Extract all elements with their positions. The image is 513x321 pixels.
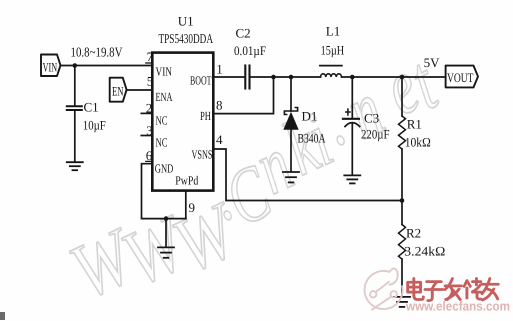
svg-text:4: 4 (216, 132, 223, 147)
svg-text:GND: GND (155, 162, 174, 176)
corner mark (0, 312, 5, 320)
svg-text:C2: C2 (236, 26, 251, 41)
resistor R1 10k (399, 77, 431, 201)
svg-text:ENA: ENA (156, 90, 173, 104)
node D1 junction (289, 75, 294, 80)
wire VIN to pin7 (61, 65, 153, 67)
node VIN junction (73, 63, 78, 68)
node ground junction (164, 216, 169, 221)
svg-text:10kΩ: 10kΩ (405, 135, 431, 150)
svg-text:5V: 5V (424, 55, 441, 70)
svg-text:10.8~19.8V: 10.8~19.8V (71, 45, 123, 60)
svg-text:NC: NC (156, 136, 168, 150)
svg-text:7: 7 (147, 49, 154, 64)
pin 6 stub (146, 160, 153, 162)
port VOUT (446, 66, 478, 88)
node PH junction (271, 75, 276, 80)
wire junction to ground (165, 219, 167, 247)
inductor L1 15uH (320, 24, 344, 78)
node C3 junction (350, 75, 355, 80)
svg-text:VSNS: VSNS (192, 148, 213, 162)
capacitor C3 220uF (343, 77, 390, 175)
svg-text:VIN: VIN (156, 65, 173, 79)
svg-text:15µH: 15µH (321, 43, 345, 58)
svg-text:220µF: 220µF (361, 127, 390, 142)
svg-text:8: 8 (216, 98, 223, 113)
svg-text:PwPd: PwPd (175, 174, 199, 188)
diode D1 B340A (283, 77, 326, 172)
pin 7 stub (146, 62, 153, 64)
svg-text:3.24kΩ: 3.24kΩ (404, 244, 445, 259)
svg-text:D1: D1 (302, 109, 318, 124)
svg-text:NC: NC (156, 114, 168, 128)
capacitor C2 (234, 26, 266, 89)
svg-text:www.elecfans.com: www.elecfans.com (405, 299, 510, 314)
svg-text:VOUT: VOUT (447, 70, 474, 85)
svg-text:EN: EN (112, 84, 124, 99)
svg-text:BOOT: BOOT (190, 74, 212, 88)
resistor R2 3.24k (399, 201, 446, 297)
svg-text:0.01µF: 0.01µF (234, 43, 266, 58)
ground C1 (67, 162, 83, 170)
ground R2 (394, 297, 410, 307)
svg-text:U1: U1 (178, 14, 194, 29)
node R1 junction (400, 75, 405, 80)
wire GND pin6 routing (142, 164, 186, 219)
子 (425, 282, 443, 301)
port EN (110, 78, 127, 102)
ground D1 (283, 172, 299, 182)
svg-text:9: 9 (189, 200, 196, 215)
pin 3 stub (141, 135, 152, 137)
node feedback junction (400, 198, 405, 203)
svg-text:R1: R1 (407, 117, 422, 132)
svg-text:C3: C3 (364, 111, 379, 126)
wire BOOT to C2 (214, 76, 245, 78)
烧 (464, 279, 481, 300)
pin 2 stub (141, 112, 152, 114)
wire C2 to L1 (251, 76, 321, 78)
wire PH (214, 77, 274, 114)
port VIN (41, 55, 61, 77)
svg-text:R2: R2 (406, 226, 421, 241)
svg-text:10µF: 10µF (83, 118, 106, 133)
op-amp U1 TPS5430DDA body (152, 14, 213, 191)
svg-text:C1: C1 (84, 100, 99, 115)
svg-text:B340A: B340A (298, 131, 326, 146)
svg-text:PH: PH (200, 109, 211, 123)
capacitor C1 (67, 66, 106, 162)
wire EN to pin5 (127, 89, 153, 91)
svg-text:L1: L1 (326, 24, 340, 39)
svg-text:TPS5430DDA: TPS5430DDA (159, 31, 214, 46)
svg-text:VIN: VIN (43, 60, 58, 75)
svg-text:1: 1 (216, 62, 223, 77)
svg-text:5: 5 (147, 74, 154, 89)
电 (408, 279, 424, 300)
logo text dianzifashaoyou (408, 279, 499, 301)
发 (445, 279, 461, 300)
ground C3 (344, 175, 360, 183)
wire VSNS feedback (214, 149, 403, 201)
logo icon elecfans (365, 268, 403, 309)
watermark www.cnki.net (58, 41, 450, 317)
pin 9 stub (185, 191, 187, 219)
ground GND/PwPd (158, 247, 174, 257)
wire L1 to VOUT (342, 76, 446, 78)
友 (482, 279, 498, 301)
